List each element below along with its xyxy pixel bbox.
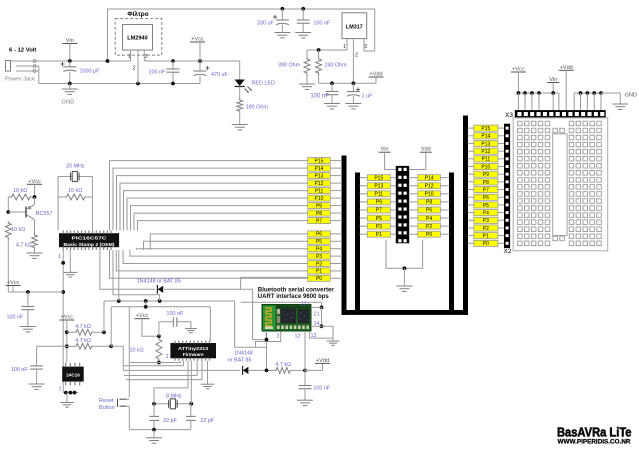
svg-text:P13: P13: [481, 141, 490, 147]
wire pin2 path to BT: [256, 331, 281, 347]
power flag +Vcc: [190, 37, 205, 62]
connector X1 header: [396, 166, 408, 242]
ground GND symbol: [62, 84, 78, 95]
node 100nF junction: [301, 7, 305, 11]
svg-text:10 kΩ: 10 kΩ: [130, 348, 144, 354]
svg-text:100 nF: 100 nF: [314, 21, 331, 27]
logo URL: [558, 440, 632, 446]
capacitor C4 330uF: [273, 9, 290, 38]
svg-text:2: 2: [355, 53, 358, 59]
svg-text:+Vcc: +Vcc: [61, 315, 74, 321]
pin 2 label: [133, 66, 136, 72]
svg-text:P11: P11: [315, 188, 324, 194]
svg-text:22 pF: 22 pF: [200, 418, 214, 424]
svg-text:22 pF: 22 pF: [163, 418, 177, 424]
crystal X2 8MHz: [152, 399, 193, 409]
resistor R3 240 Ohm: [316, 50, 322, 83]
svg-text:P12: P12: [315, 181, 324, 187]
svg-text:P11: P11: [482, 157, 491, 163]
power flag Vin header: [379, 147, 397, 170]
power flag Vin: [62, 38, 77, 61]
svg-text:6 - 12 Volt: 6 - 12 Volt: [9, 48, 36, 54]
value 1N4148 D3: [228, 351, 253, 364]
svg-text:13: 13: [311, 333, 317, 339]
power flag +Vcc PIC: [27, 179, 42, 197]
ground rail bottom: [39, 82, 200, 86]
svg-text:100 nF: 100 nF: [11, 367, 28, 373]
breadboard channel: [553, 134, 567, 236]
wire BT data line: [104, 299, 235, 303]
svg-text:P2: P2: [426, 224, 432, 230]
svg-text:390 Ohm: 390 Ohm: [278, 63, 301, 69]
wire LM2940 pin3 output: [144, 50, 239, 63]
svg-text:P8: P8: [483, 180, 489, 186]
svg-text:+Vcc: +Vcc: [191, 37, 204, 43]
svg-text:Vin: Vin: [381, 147, 389, 153]
value 100 nF C8: [7, 315, 24, 321]
value 22 pF C13: [200, 418, 214, 424]
wire LM317 pin2 adj: [352, 39, 354, 84]
svg-text:P3: P3: [316, 254, 322, 260]
svg-text:3: 3: [145, 54, 148, 60]
svg-text:P14: P14: [315, 166, 324, 172]
svg-text:14: 14: [314, 321, 320, 327]
wire fan PIC to P15-P7: [110, 161, 308, 231]
capacitor C1 1000uF: [61, 61, 77, 84]
svg-text:P14: P14: [481, 134, 490, 140]
resistor R5 10k: [10, 194, 36, 200]
label X3: [505, 112, 513, 119]
value 330 uF: [257, 21, 274, 27]
value 10 kOhm R4: [68, 188, 82, 194]
label RED LED: [252, 81, 275, 87]
svg-text:100 nF: 100 nF: [313, 386, 330, 392]
regulator U1 LM2940: [123, 25, 153, 51]
pin labels P15-P0 left column: [308, 158, 331, 283]
wire xtal left to ATTiny: [154, 361, 188, 404]
svg-text:1: 1: [343, 44, 346, 50]
wire PIC pin1 down: [61, 250, 65, 393]
wires header right: [409, 178, 450, 235]
node Vin junction: [68, 59, 72, 63]
ground BT right: [322, 326, 340, 345]
svg-text:BC557: BC557: [36, 211, 52, 217]
svg-text:P13: P13: [315, 173, 324, 179]
value 100 nF C11: [313, 386, 330, 392]
svg-text:P15: P15: [374, 175, 383, 181]
ground ATTiny: [201, 361, 215, 389]
wire PIC rx: [118, 250, 120, 301]
wire serial main: [111, 346, 240, 370]
svg-text:P7: P7: [376, 208, 382, 214]
value 4.7 kOhm R8: [75, 324, 91, 330]
LED D1 red: [235, 61, 252, 98]
capacitor C3 470uF: [194, 61, 210, 84]
value 390 Ohm: [278, 63, 301, 69]
svg-text:+Vdd: +Vdd: [316, 358, 329, 364]
power flag Vin X3: [547, 77, 559, 93]
resistor R6 4.7k: [27, 233, 43, 258]
svg-text:P5: P5: [376, 216, 382, 222]
resistor R1 180 Ohm: [237, 98, 243, 113]
wire input riser to top rail: [106, 9, 375, 63]
svg-text:Button: Button: [99, 405, 115, 411]
power flag +Vdd: [369, 72, 384, 84]
svg-text:WWW.PIPERIDIS.CO.NR: WWW.PIPERIDIS.CO.NR: [558, 440, 632, 446]
svg-text:Φίλτρο: Φίλτρο: [127, 10, 148, 18]
resistor R9 4.7k: [67, 343, 113, 349]
value 10 kOhm R7: [11, 227, 25, 233]
diode D2 1N4148: [100, 250, 308, 340]
label BC557: [36, 211, 52, 217]
svg-text:P14: P14: [425, 175, 434, 181]
power flag +Vcc 24C16: [59, 315, 74, 363]
svg-text:P12: P12: [425, 183, 434, 189]
wire fan PIC to P6-P0: [110, 234, 308, 278]
wire LM2940 pin1: [130, 50, 132, 61]
pin 1 label 24C16: [59, 387, 62, 393]
svg-text:P6: P6: [426, 208, 432, 214]
svg-text:P12: P12: [481, 149, 490, 155]
wire xtal ground rail: [129, 428, 191, 432]
label Bluetooth serial converter: [258, 288, 335, 301]
wire BT pin22: [308, 302, 310, 304]
pin 1 label: [128, 54, 131, 60]
svg-text:10 kΩ: 10 kΩ: [13, 188, 27, 194]
node 330uF junction: [281, 7, 285, 11]
svg-text:+Vcc: +Vcc: [136, 313, 149, 319]
svg-text:P9: P9: [316, 203, 322, 209]
label X2: [504, 248, 512, 255]
wire ATTiny misc2: [124, 361, 197, 376]
resistor R10 10k: [156, 338, 162, 362]
pin labels odd P15-P1 header left: [367, 175, 390, 238]
wire BT pin13: [309, 331, 333, 338]
svg-text:100 nF: 100 nF: [310, 94, 329, 100]
transistor Q1 BC557: [26, 197, 35, 233]
svg-text:P3: P3: [483, 218, 489, 224]
svg-text:P9: P9: [376, 200, 382, 206]
svg-text:Vdd: Vdd: [421, 147, 431, 153]
svg-text:BasAVRa LiTe: BasAVRa LiTe: [557, 426, 632, 440]
svg-text:+Vcc: +Vcc: [512, 67, 525, 73]
capacitor C9 100nF: [29, 346, 67, 389]
svg-text:P15: P15: [315, 158, 324, 164]
svg-text:8 MHz: 8 MHz: [166, 394, 182, 400]
wire xtal right to ATTiny: [190, 361, 192, 404]
breadboard grid holes: [518, 121, 602, 245]
wire reset line: [129, 361, 180, 363]
svg-text:4.7 kΩ: 4.7 kΩ: [75, 324, 91, 330]
wire jack sleeve to ground rail: [36, 66, 39, 84]
capacitor C5 100nF: [295, 9, 311, 38]
power flag +Vcc X3: [511, 67, 526, 94]
svg-text:ATTiny2313: ATTiny2313: [178, 346, 208, 351]
resistor R8 4.7k: [67, 329, 106, 335]
wire LM317 pin3 to input rail: [364, 9, 375, 51]
value 100 nF C10: [167, 311, 184, 317]
svg-text:P2: P2: [316, 261, 322, 267]
label Power Jack: [5, 77, 35, 83]
value 10 kOhm R10: [130, 348, 144, 354]
capacitor C11 100nF: [297, 370, 313, 405]
bluetooth module BT1: [262, 305, 311, 332]
svg-text:100 nF: 100 nF: [167, 311, 184, 317]
svg-text:P7: P7: [316, 218, 322, 224]
wire left supply bus X3: [517, 91, 559, 111]
svg-text:GND: GND: [625, 93, 637, 99]
svg-text:20 MHz: 20 MHz: [66, 164, 85, 170]
svg-text:10 kΩ: 10 kΩ: [11, 227, 25, 233]
breadboard border: [513, 118, 608, 251]
svg-text:Power Jack: Power Jack: [5, 77, 35, 83]
eeprom U4 24C16: [63, 363, 83, 386]
connector X3: [515, 111, 605, 118]
svg-text:GND: GND: [62, 100, 75, 106]
wires header left: [360, 178, 397, 235]
value 1 uF: [362, 94, 373, 100]
capacitor C13 22pF: [186, 404, 196, 430]
power flag +Vcc lower: [6, 280, 21, 292]
svg-text:P7: P7: [483, 187, 489, 193]
svg-text:100 nF: 100 nF: [149, 70, 166, 76]
wire header ground loop: [386, 240, 423, 270]
svg-text:+Vdd: +Vdd: [560, 65, 573, 71]
wire BT pin21 junction: [311, 302, 323, 309]
wire link verticals: [145, 301, 147, 307]
svg-text:P8: P8: [316, 211, 322, 217]
svg-text:P0: P0: [426, 232, 432, 238]
svg-text:P13: P13: [374, 183, 383, 189]
pin 1 label PIC: [58, 254, 61, 260]
pin 1 label BT: [265, 334, 268, 340]
wire Vdd rail: [319, 81, 376, 85]
logo BasAVRa LiTe: [557, 426, 632, 440]
svg-text:P9: P9: [483, 172, 489, 178]
resistor R4 10k: [58, 194, 92, 200]
pin 3 label LM317: [364, 44, 367, 50]
svg-text:1 uF: 1 uF: [362, 94, 373, 100]
power flag +Vdd X3: [559, 65, 574, 111]
wire ATTiny misc1: [124, 361, 183, 366]
svg-text:X3: X3: [505, 112, 513, 119]
value 4.7 kOhm R11: [275, 362, 291, 368]
wire to BT pin2 node: [235, 301, 267, 347]
capacitor C8 100nF: [20, 292, 36, 332]
svg-text:1: 1: [166, 354, 169, 360]
switch SW1 reset: [118, 307, 130, 430]
pin labels even P14-P0 header right: [418, 175, 441, 238]
svg-text:1: 1: [265, 334, 268, 340]
power flag Vdd header: [409, 147, 432, 170]
svg-text:Firmware: Firmware: [183, 352, 204, 357]
wire ATTiny misc3: [126, 361, 202, 380]
svg-text:LM317: LM317: [346, 25, 363, 31]
svg-text:P11: P11: [375, 192, 384, 198]
svg-text:2: 2: [133, 66, 136, 72]
pin 2 label BT: [277, 334, 280, 340]
ground 24C16: [60, 393, 74, 407]
value 22 pF C12: [163, 418, 177, 424]
power flag +Vdd BT: [305, 358, 330, 371]
power flag +Vcc ATTiny: [135, 313, 159, 336]
bus bar bottom: [342, 311, 468, 315]
bus bar B: [356, 173, 360, 311]
svg-text:P1: P1: [316, 269, 322, 275]
svg-text:P1: P1: [483, 234, 489, 240]
svg-text:P10: P10: [315, 196, 324, 202]
svg-text:10 kΩ: 10 kΩ: [68, 188, 82, 194]
capacitor C12 22pF: [149, 404, 159, 430]
resistor R7 10k: [5, 221, 11, 292]
pin 13 label: [311, 333, 317, 339]
diode D3 1N4148: [243, 366, 267, 375]
wire 24C16 bottom: [63, 391, 78, 395]
wire right supply bus X3: [574, 91, 603, 111]
pin 12 label: [295, 334, 301, 340]
svg-text:P4: P4: [483, 210, 489, 216]
wire reset rail: [111, 305, 210, 341]
bus bar D: [464, 116, 468, 314]
connector X2: [505, 124, 510, 247]
microcontroller U5 ATTiny2313: [171, 341, 216, 361]
svg-text:P6: P6: [316, 232, 322, 238]
svg-text:P0: P0: [483, 241, 489, 247]
microcontroller U3 PIC16C57C Basic Stamp 2: [60, 230, 119, 250]
svg-text:P8: P8: [426, 200, 432, 206]
ground PIC pin2: [64, 250, 78, 277]
wire R5 to base: [6, 197, 26, 214]
value 4.7 kOhm R6: [16, 243, 32, 249]
svg-text:P6: P6: [483, 195, 489, 201]
svg-text:240 Ohm: 240 Ohm: [325, 63, 348, 69]
ground below R1: [232, 113, 248, 130]
bus bar A: [342, 156, 346, 314]
svg-text:P5: P5: [483, 203, 489, 209]
value 1000 uF: [80, 69, 101, 75]
svg-text:Bluetooth serial converter: Bluetooth serial converter: [258, 288, 335, 294]
svg-text:1N4148 or BAT 85: 1N4148 or BAT 85: [137, 279, 181, 285]
value 4.7 kOhm R9: [75, 338, 91, 344]
svg-text:1000 µF: 1000 µF: [80, 69, 101, 75]
svg-text:330 uF: 330 uF: [257, 21, 274, 27]
svg-text:12: 12: [295, 334, 301, 340]
value 180 Ohm: [246, 105, 269, 111]
value 10 kOhm R5: [13, 188, 27, 194]
svg-text:X2: X2: [504, 248, 512, 255]
pin 22 label: [301, 302, 307, 308]
wire LM2940 pin2 to ground rail: [137, 50, 139, 84]
svg-text:P1: P1: [376, 232, 382, 238]
svg-text:100 nF: 100 nF: [7, 315, 24, 321]
svg-text:+Vcc: +Vcc: [28, 179, 41, 185]
svg-text:P15: P15: [481, 126, 490, 132]
bus bar C: [450, 173, 454, 311]
label GND X3: [625, 93, 637, 99]
svg-text:PIC16C57C: PIC16C57C: [72, 236, 108, 242]
value 100 nF: [149, 70, 166, 76]
capacitor C10 100nF: [159, 317, 197, 336]
svg-text:2: 2: [277, 334, 280, 340]
capacitor C6 100nF: [324, 83, 340, 109]
svg-text:22: 22: [301, 302, 307, 308]
pin 2 label LM317: [355, 53, 358, 59]
svg-text:21: 21: [314, 312, 320, 318]
label GND: [62, 100, 75, 106]
svg-text:P3: P3: [376, 224, 382, 230]
label Reset Button: [99, 398, 115, 411]
ground xtal: [146, 430, 162, 444]
capacitor C2 100nF: [167, 61, 180, 85]
power jack J1: [6, 60, 36, 73]
wires X2 column: [468, 128, 505, 243]
svg-text:Vin: Vin: [66, 38, 74, 44]
svg-text:4.7 kΩ: 4.7 kΩ: [275, 362, 291, 368]
node reset bottom: [157, 361, 161, 365]
svg-text:or BAT 85: or BAT 85: [228, 358, 252, 364]
svg-text:4.7 kΩ: 4.7 kΩ: [16, 243, 32, 249]
svg-text:1: 1: [58, 254, 61, 260]
pin 1 label LM317: [343, 44, 346, 50]
wire BT pin21 line: [241, 301, 322, 303]
ground below header: [396, 268, 412, 291]
svg-text:P0: P0: [316, 276, 322, 282]
value 100 nF: [314, 21, 331, 27]
svg-text:P2: P2: [483, 226, 489, 232]
regulator U2 LM317: [342, 13, 367, 39]
wire R9 up: [110, 307, 112, 347]
svg-text:180 Ohm: 180 Ohm: [246, 105, 269, 111]
wire R8 to BT line: [103, 301, 105, 332]
dashed box Filtro: [115, 19, 162, 56]
svg-text:Reset: Reset: [99, 398, 114, 404]
svg-text:P4: P4: [426, 216, 432, 222]
pin labels P15-P0 column X2: [474, 125, 498, 247]
wire BT pin14 junction: [311, 307, 323, 328]
pin 14 label: [314, 321, 320, 327]
svg-text:1: 1: [59, 387, 62, 393]
svg-text:24C16: 24C16: [66, 373, 80, 378]
wire Vcc rail lower: [8, 290, 63, 294]
label 6-12 Volt: [9, 48, 36, 54]
wire PIC feeder: [113, 250, 160, 301]
svg-text:P5: P5: [316, 239, 322, 245]
wire jack to Vin node: [36, 60, 131, 62]
value 100 nF C9: [11, 367, 28, 373]
svg-text:+Vcc: +Vcc: [7, 280, 20, 286]
value 240 Ohm: [325, 63, 348, 69]
value 8 MHz: [166, 394, 182, 400]
pin 21 label: [314, 312, 320, 318]
value 20 MHz: [66, 164, 85, 170]
node reset top: [157, 334, 161, 338]
svg-text:P4: P4: [316, 247, 322, 253]
value 100 nF C6: [310, 94, 329, 100]
svg-text:4.7 kΩ: 4.7 kΩ: [75, 338, 91, 344]
pin 3 label: [145, 54, 148, 60]
svg-text:Vin: Vin: [549, 77, 557, 83]
ground X3: [601, 93, 628, 109]
svg-text:UART interface 9600 bps: UART interface 9600 bps: [258, 294, 330, 300]
svg-text:P10: P10: [481, 164, 490, 170]
wire LM317 pin1 to divider: [307, 39, 347, 52]
resistor R2 390 Ohm: [299, 50, 315, 89]
svg-text:RED LED: RED LED: [252, 81, 275, 87]
pin 1 label ATTiny: [166, 354, 169, 360]
wire BT pin1: [265, 331, 269, 372]
value 1N4148 or BAT 85: [137, 279, 181, 285]
svg-text:+Vdd: +Vdd: [369, 72, 382, 78]
